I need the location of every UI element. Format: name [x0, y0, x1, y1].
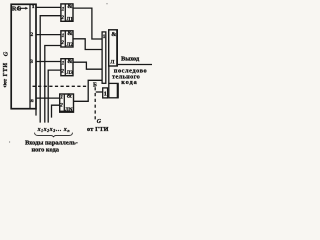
svg-text:Л1: Л1 [67, 17, 74, 22]
wire output stage left edge extension [108, 66, 110, 83]
svg-text:&: & [67, 58, 73, 65]
svg-text:2: 2 [60, 40, 64, 46]
svg-text:&: & [67, 30, 73, 37]
svg-text:n: n [31, 98, 34, 104]
trigger box pin section [103, 88, 108, 98]
svg-text:x1x2x3…xn: x1x2x3…xn [37, 127, 70, 133]
svg-text:1: 1 [32, 4, 35, 10]
and-gate L1 pin divider [64, 4, 66, 21]
wire serial code output [117, 64, 152, 66]
dashed continuation line horizontal [33, 85, 88, 87]
svg-text:2: 2 [60, 15, 64, 21]
svg-text:3: 3 [30, 59, 33, 65]
register RG output-pin column divider [29, 4, 31, 108]
svg-text:1: 1 [62, 33, 65, 39]
svg-text:1: 1 [62, 6, 65, 12]
clock input mark [3, 83, 8, 88]
svg-text:2: 2 [59, 103, 63, 109]
wire LN output [74, 80, 103, 101]
and-gate L3 pin divider [64, 59, 66, 76]
register RG corner overshoot line [35, 109, 37, 116]
and-gate LN box [60, 94, 74, 112]
and-gate L2 pin divider [64, 31, 66, 47]
svg-text:&: & [67, 92, 73, 99]
wire input x1 [40, 16, 61, 123]
and-gate output stage box [109, 30, 118, 66]
and-gate LN thick bottom edge [60, 111, 74, 113]
svg-text:&: & [67, 3, 73, 10]
trigger box thick right edge [117, 83, 119, 97]
svg-text:ного кода: ного кода [32, 147, 60, 154]
svg-text:Л3: Л3 [67, 71, 74, 76]
svg-text:2: 2 [30, 32, 33, 38]
wire strobe output 1 [36, 6, 61, 8]
svg-text:Л2: Л2 [67, 43, 74, 48]
svg-text:ГТИ: ГТИ [3, 62, 9, 76]
speck top [106, 3, 107, 4]
wire L1 output [73, 8, 102, 39]
svg-text:1: 1 [103, 34, 106, 40]
svg-text:от ГТИ: от ГТИ [87, 126, 109, 133]
svg-text:Б: Б [93, 83, 97, 89]
register shift arrow tick [18, 6, 20, 10]
and-gate L3 box [61, 59, 73, 76]
svg-text:1: 1 [104, 91, 107, 97]
svg-text:Входы параллель-: Входы параллель- [25, 140, 78, 147]
trigger box body [109, 83, 118, 97]
register RG box [11, 4, 36, 108]
and-gate LN pin divider [63, 94, 65, 112]
svg-text:кода: кода [121, 79, 137, 86]
svg-text:G: G [97, 119, 102, 125]
or-gate collector box [102, 32, 106, 83]
wire strobe output n [36, 97, 60, 99]
svg-text:G: G [2, 51, 9, 56]
svg-text:2: 2 [60, 68, 64, 74]
dashed blocking line vertical [94, 87, 96, 121]
wire L2 output [73, 39, 102, 50]
svg-text:ЛN: ЛN [65, 108, 73, 113]
svg-text:от: от [3, 78, 8, 83]
and-gate L1 box [61, 4, 73, 21]
wire input x2 [45, 46, 61, 123]
svg-text:1: 1 [62, 60, 65, 66]
svg-text:1: 1 [60, 94, 63, 100]
and-gate output stage thick right edge [116, 30, 118, 66]
speck bottom left [9, 141, 10, 142]
register shift arrow shaft [20, 7, 26, 9]
and-gate L2 box [61, 31, 73, 47]
wire blocking stub to trigger [96, 91, 103, 93]
register shift arrow head [25, 7, 28, 10]
svg-text:&: & [111, 31, 116, 38]
wire input x3 [48, 70, 61, 123]
svg-text:Л: Л [110, 59, 114, 65]
wire input xn [52, 105, 60, 117]
svg-text:RG: RG [12, 6, 22, 13]
svg-text:Выход: Выход [121, 56, 140, 63]
wire strobe output 2 [36, 34, 61, 36]
underbrace [35, 133, 73, 138]
wire strobe output 3 [36, 61, 61, 63]
wire L3 output [73, 62, 102, 69]
